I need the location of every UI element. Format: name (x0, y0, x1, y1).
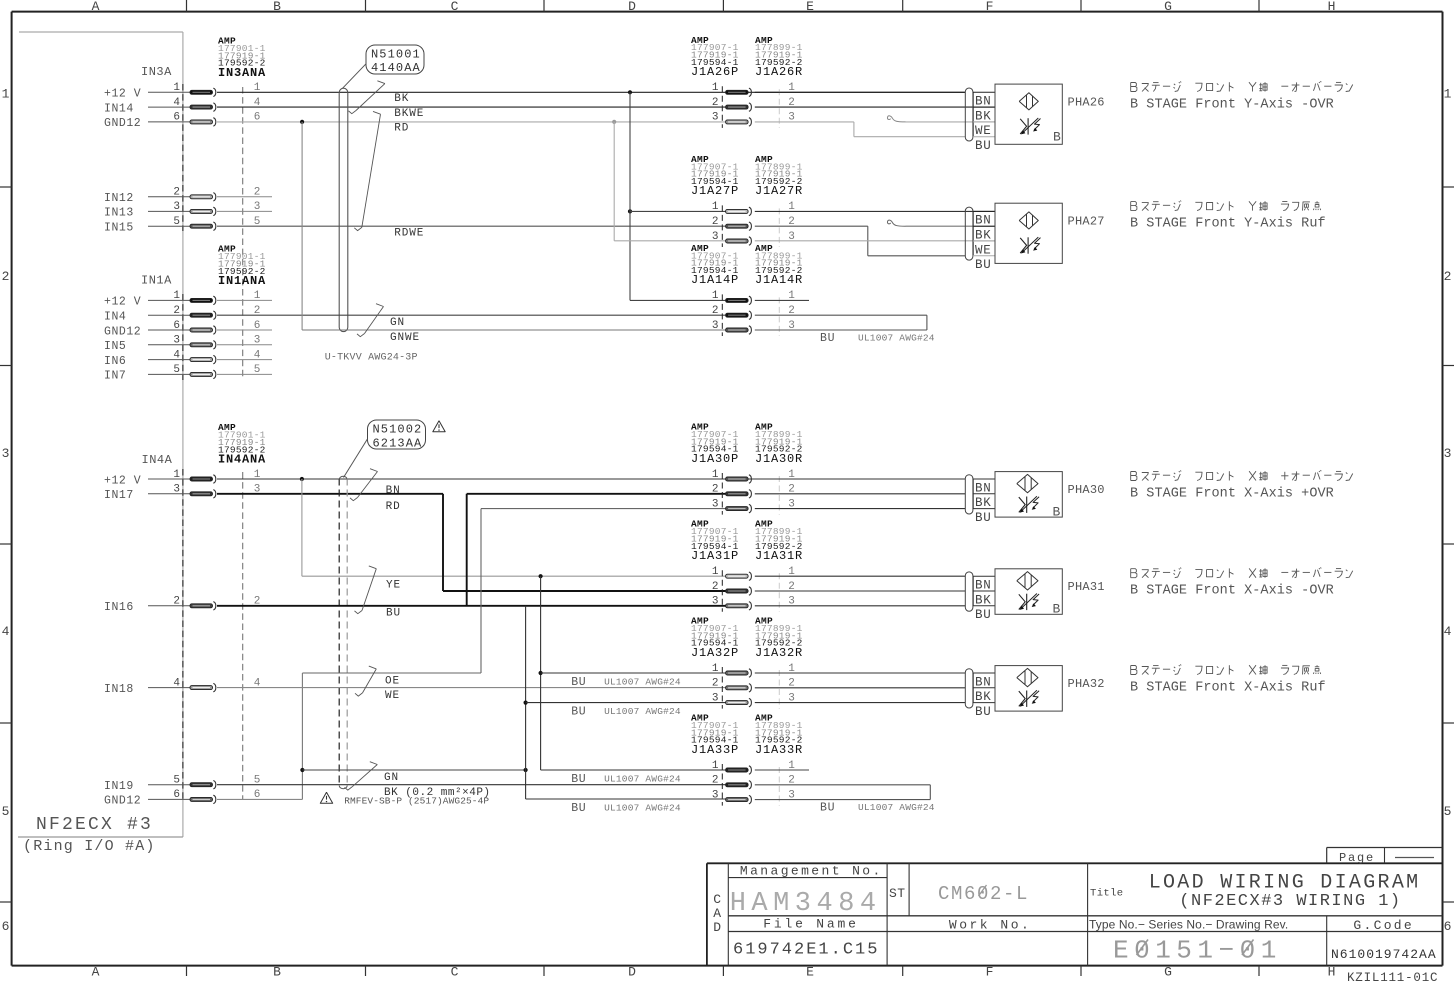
svg-text:B STAGE Front Y-Axis -OVR: B STAGE Front Y-Axis -OVR (1130, 98, 1334, 113)
svg-text:3: 3 (173, 201, 180, 213)
svg-text:WE: WE (975, 243, 991, 257)
svg-text:J1A27P: J1A27P (691, 184, 739, 198)
svg-text:1: 1 (712, 201, 719, 213)
svg-text:IN5: IN5 (104, 340, 126, 353)
svg-text:+12 V: +12 V (104, 474, 141, 487)
svg-text:2: 2 (173, 187, 180, 199)
svg-text:IN7: IN7 (104, 370, 126, 383)
svg-text:B: B (273, 965, 281, 980)
svg-text:B STAGE Front X-Axis Ruf: B STAGE Front X-Axis Ruf (1130, 681, 1326, 696)
svg-text:1: 1 (712, 82, 719, 94)
svg-text:J1A32R: J1A32R (755, 646, 803, 660)
svg-text:IN12: IN12 (104, 192, 134, 205)
svg-text:UL1007 AWG#24: UL1007 AWG#24 (604, 773, 681, 784)
svg-text:BU: BU (975, 608, 991, 622)
svg-text:Type No.− Series No.− Drawing: Type No.− Series No.− Drawing Rev. (1089, 918, 1288, 932)
svg-text:BU: BU (571, 705, 586, 718)
svg-text:1: 1 (173, 290, 180, 302)
svg-text:UL1007 AWG#24: UL1007 AWG#24 (858, 802, 935, 813)
svg-text:J1A33R: J1A33R (755, 743, 803, 757)
svg-text:BU: BU (975, 258, 991, 272)
svg-text:1: 1 (173, 82, 180, 94)
svg-text:ST: ST (889, 886, 906, 901)
svg-text:IN19: IN19 (104, 780, 134, 793)
svg-text:B STAGE Front X-Axis +OVR: B STAGE Front X-Axis +OVR (1130, 487, 1334, 502)
svg-text:GN: GN (384, 772, 399, 784)
svg-text:G: G (1164, 0, 1172, 14)
svg-text:BKWE: BKWE (394, 108, 424, 120)
svg-text:2: 2 (712, 775, 719, 787)
svg-text:A: A (713, 906, 721, 921)
svg-text:1: 1 (712, 290, 719, 302)
svg-text:3: 3 (1444, 446, 1452, 461)
svg-text:Management No.: Management No. (740, 863, 883, 878)
svg-text:3: 3 (173, 335, 180, 347)
svg-text:F: F (986, 0, 994, 14)
svg-text:WE: WE (975, 124, 991, 138)
svg-text:J1A30R: J1A30R (755, 452, 803, 466)
svg-text:IN18: IN18 (104, 683, 134, 696)
svg-text:J1A14R: J1A14R (755, 273, 803, 287)
svg-text:3: 3 (712, 596, 719, 608)
svg-text:IN3A: IN3A (141, 65, 172, 79)
svg-text:BK: BK (394, 93, 409, 105)
svg-text:GND12: GND12 (104, 117, 141, 130)
svg-text:J1A33P: J1A33P (691, 743, 739, 757)
svg-text:UL1007 AWG#24: UL1007 AWG#24 (604, 802, 681, 813)
svg-text:J1A14P: J1A14P (691, 273, 739, 287)
svg-text:PHA31: PHA31 (1068, 580, 1105, 594)
svg-text:IN4ANA: IN4ANA (218, 453, 266, 467)
svg-text:PHA30: PHA30 (1068, 483, 1105, 497)
svg-text:UL1007 AWG#24: UL1007 AWG#24 (858, 333, 935, 344)
svg-text:IN15: IN15 (104, 222, 134, 235)
svg-text:F: F (986, 965, 994, 980)
svg-text:619742E1.C15: 619742E1.C15 (733, 941, 879, 960)
svg-text:4: 4 (2, 624, 10, 639)
svg-text:NF2ECX #3: NF2ECX #3 (36, 815, 153, 835)
svg-text:6: 6 (1444, 919, 1452, 934)
svg-text:J1A26R: J1A26R (755, 65, 803, 79)
svg-text:1: 1 (173, 469, 180, 481)
svg-text:4: 4 (1444, 624, 1452, 639)
svg-text:IN17: IN17 (104, 489, 134, 502)
svg-text:YE: YE (386, 580, 401, 592)
svg-text:B: B (1053, 505, 1061, 520)
svg-text:RD: RD (386, 501, 401, 513)
svg-text:1: 1 (712, 760, 719, 772)
svg-text:UL1007 AWG#24: UL1007 AWG#24 (604, 706, 681, 717)
svg-text:2: 2 (712, 216, 719, 228)
svg-text:D: D (713, 920, 721, 935)
svg-text:A: A (92, 965, 100, 980)
svg-text:3: 3 (712, 498, 719, 510)
svg-text:BK: BK (975, 109, 991, 123)
svg-text:6: 6 (2, 919, 10, 934)
svg-text:2: 2 (2, 269, 10, 284)
svg-text:BU: BU (975, 705, 991, 719)
svg-text:N51002: N51002 (373, 423, 423, 437)
svg-text:B: B (1053, 130, 1061, 145)
svg-text:J1A32P: J1A32P (691, 646, 739, 660)
svg-text:1: 1 (712, 469, 719, 481)
svg-text:3: 3 (712, 692, 719, 704)
svg-text:5: 5 (173, 216, 180, 228)
svg-text:IN1A: IN1A (141, 273, 172, 287)
svg-text:IN3ANA: IN3ANA (218, 66, 266, 80)
svg-text:6: 6 (173, 320, 180, 332)
svg-text:4140AA: 4140AA (371, 61, 421, 75)
svg-text:2: 2 (712, 581, 719, 593)
svg-text:3: 3 (2, 446, 10, 461)
svg-text:IN4A: IN4A (142, 453, 173, 467)
svg-text:2: 2 (712, 484, 719, 496)
svg-text:5: 5 (173, 775, 180, 787)
svg-text:1: 1 (1444, 87, 1452, 102)
svg-text:E: E (806, 965, 814, 980)
svg-text:GNWE: GNWE (390, 332, 420, 344)
svg-text:LOAD WIRING DIAGRAM: LOAD WIRING DIAGRAM (1149, 871, 1421, 894)
svg-text:GND12: GND12 (104, 795, 141, 808)
svg-text:B: B (1053, 602, 1061, 617)
svg-text:RMFEV-SB-P (2517)AWG25-4P: RMFEV-SB-P (2517)AWG25-4P (344, 796, 489, 807)
svg-text:BK: BK (975, 593, 991, 607)
svg-text:File Name: File Name (763, 916, 858, 931)
svg-text:5: 5 (173, 364, 180, 376)
svg-text:A: A (92, 0, 100, 14)
svg-text:IN1ANA: IN1ANA (218, 274, 266, 288)
svg-text:PHA26: PHA26 (1068, 95, 1105, 109)
svg-text:BN: BN (975, 579, 991, 593)
svg-text:(Ring I/O #A): (Ring I/O #A) (23, 838, 156, 855)
svg-text:BN: BN (386, 485, 401, 497)
svg-text:3: 3 (712, 231, 719, 243)
svg-text:BK: BK (975, 690, 991, 704)
svg-text:J1A26P: J1A26P (691, 65, 739, 79)
svg-text:BU: BU (571, 676, 586, 689)
svg-text:OE: OE (385, 675, 400, 687)
svg-text:WE: WE (385, 690, 400, 702)
svg-text:H: H (1328, 0, 1336, 14)
svg-text:2: 2 (173, 596, 180, 608)
svg-text:IN16: IN16 (104, 601, 134, 614)
svg-text:(NF2ECX#3 WIRING 1): (NF2ECX#3 WIRING 1) (1179, 892, 1401, 911)
svg-text:B STAGE Front X-Axis -OVR: B STAGE Front X-Axis -OVR (1130, 584, 1334, 599)
svg-text:G: G (1164, 965, 1172, 980)
svg-text:BU: BU (975, 139, 991, 153)
svg-text:J1A31R: J1A31R (755, 549, 803, 563)
svg-text:IN14: IN14 (104, 102, 134, 115)
svg-text:BN: BN (975, 95, 991, 109)
svg-text:4: 4 (173, 349, 180, 361)
svg-text:J1A30P: J1A30P (691, 452, 739, 466)
svg-text:4: 4 (173, 97, 180, 109)
svg-text:C: C (713, 892, 721, 907)
svg-text:BU: BU (386, 608, 401, 620)
svg-text:IN4: IN4 (104, 311, 126, 324)
svg-text:J1A27R: J1A27R (755, 184, 803, 198)
svg-text:IN6: IN6 (104, 355, 126, 368)
svg-text:E0151−01: E0151−01 (1113, 936, 1282, 966)
svg-text:6: 6 (173, 112, 180, 124)
svg-text:BU: BU (571, 773, 586, 786)
svg-text:H: H (1328, 965, 1336, 980)
svg-text:6213AA: 6213AA (373, 437, 423, 451)
svg-text:5: 5 (2, 804, 10, 819)
svg-text:D: D (628, 0, 636, 14)
svg-text:N610019742AA: N610019742AA (1331, 947, 1437, 962)
svg-text:3: 3 (712, 320, 719, 332)
svg-text:C: C (451, 965, 459, 980)
svg-text:2: 2 (712, 97, 719, 109)
svg-text:BK: BK (975, 496, 991, 510)
svg-text:3: 3 (712, 789, 719, 801)
svg-text:PHA27: PHA27 (1068, 214, 1105, 228)
svg-text:E: E (806, 0, 814, 14)
svg-text:CM602-L: CM602-L (938, 883, 1029, 905)
svg-text:IN13: IN13 (104, 207, 134, 220)
svg-text:6: 6 (173, 789, 180, 801)
svg-text:BN: BN (975, 675, 991, 689)
svg-text:2: 2 (712, 305, 719, 317)
svg-text:1: 1 (712, 566, 719, 578)
svg-text:BK: BK (975, 229, 991, 243)
svg-text:HAM3484: HAM3484 (730, 889, 882, 919)
svg-text:Page: Page (1339, 851, 1375, 865)
svg-text:2: 2 (1444, 269, 1452, 284)
svg-text:BU: BU (820, 801, 835, 814)
svg-text:Title: Title (1090, 888, 1124, 900)
svg-text:3: 3 (712, 112, 719, 124)
svg-text:RDWE: RDWE (394, 227, 424, 239)
svg-text:G.Code: G.Code (1353, 918, 1414, 933)
svg-text:B: B (273, 0, 281, 14)
svg-text:2: 2 (173, 305, 180, 317)
svg-text:Work No.: Work No. (949, 918, 1031, 933)
svg-text:BU: BU (820, 332, 835, 345)
svg-text:+12 V: +12 V (104, 88, 141, 101)
svg-text:U-TKVV AWG24-3P: U-TKVV AWG24-3P (325, 353, 418, 364)
svg-text:5: 5 (1444, 804, 1452, 819)
svg-text:4: 4 (173, 677, 180, 689)
svg-text:UL1007 AWG#24: UL1007 AWG#24 (604, 676, 681, 687)
svg-text:GN: GN (390, 317, 405, 329)
svg-text:J1A31P: J1A31P (691, 549, 739, 563)
svg-text:KZIL111-01C: KZIL111-01C (1347, 971, 1438, 985)
svg-text:BN: BN (975, 481, 991, 495)
svg-text:1: 1 (2, 87, 10, 102)
svg-text:2: 2 (712, 678, 719, 690)
svg-text:PHA32: PHA32 (1068, 677, 1105, 691)
svg-text:C: C (451, 0, 459, 14)
svg-text:D: D (628, 965, 636, 980)
svg-text:B STAGE Front Y-Axis Ruf: B STAGE Front Y-Axis Ruf (1130, 217, 1326, 232)
svg-text:BU: BU (975, 511, 991, 525)
svg-text:N51001: N51001 (371, 48, 421, 62)
svg-text:GND12: GND12 (104, 325, 141, 338)
svg-text:1: 1 (712, 663, 719, 675)
svg-text:BU: BU (571, 802, 586, 815)
svg-text:+12 V: +12 V (104, 296, 141, 309)
svg-text:RD: RD (394, 123, 409, 135)
svg-text:BN: BN (975, 214, 991, 228)
svg-text:3: 3 (173, 484, 180, 496)
